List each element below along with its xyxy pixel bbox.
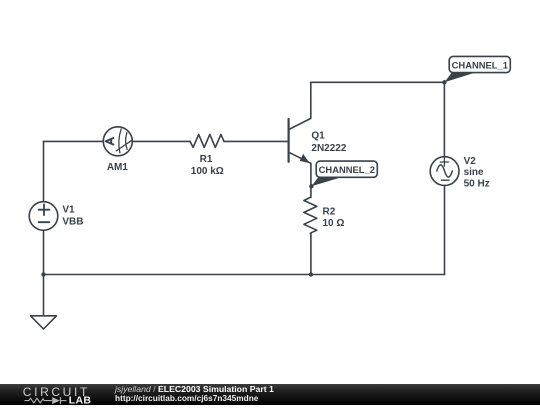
svg-text:CHANNEL_1: CHANNEL_1 [452,60,508,71]
wire R2 bottom to bottom rail [310,233,312,274]
ammeter A letter [106,138,114,145]
voltage source V2 [430,157,459,186]
ammeter AM1 [103,127,132,156]
svg-text:LAB: LAB [69,395,92,406]
wire top-left horizontal from V1 branch to ammeter [44,140,104,142]
svg-text:100 kΩ: 100 kΩ [191,166,224,177]
svg-text:VBB: VBB [62,216,83,227]
svg-text:sine: sine [464,167,484,178]
ground [31,316,57,329]
svg-text:R1: R1 [200,154,213,165]
resistor R2 [304,197,317,233]
wire V2 bottom to bottom rail [444,185,446,274]
footer text [114,383,116,385]
junction dot bottom-left [41,272,45,276]
wire left vertical top (corner to V1) [43,141,45,201]
flag CHANNEL_2 [311,161,377,186]
node A junction dot [442,80,446,84]
svg-text:CHANNEL_2: CHANNEL_2 [319,164,375,175]
svg-text:R2: R2 [323,206,336,217]
resistor R1 [190,134,224,147]
footer bar [0,384,540,405]
wire collector top horizontal to node A [311,81,445,83]
svg-text:V2: V2 [464,156,477,167]
svg-text:Q1: Q1 [311,131,325,142]
flag CHANNEL_1 [444,56,510,82]
wire emitter vertical to node B [310,163,312,197]
wire ammeter to R1 [132,140,190,142]
wire node A down to V2 [443,82,445,157]
wire R1 to Q1 base [224,140,288,142]
svg-text:2N2222: 2N2222 [311,143,346,154]
wire V1 bottom to bottom rail [43,230,45,274]
voltage source V1 [29,202,58,231]
node B junction dot [309,184,313,188]
wire bottom rail [44,274,445,276]
wire ground stem [43,275,45,316]
svg-text:50 Hz: 50 Hz [464,178,490,189]
transistor Q1 [289,82,311,163]
svg-text:V1: V1 [62,205,75,216]
CircuitLab logo [0,384,110,405]
junction dot bottom R2 [309,272,313,276]
svg-text:10 Ω: 10 Ω [323,218,345,229]
svg-text:AM1: AM1 [107,162,129,173]
